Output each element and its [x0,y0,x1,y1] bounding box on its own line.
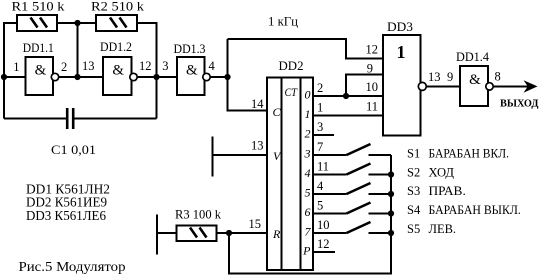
wire R1 left to input vertical [4,23,17,119]
svg-text:ХОД: ХОД [429,165,455,179]
svg-text:R3 100 k: R3 100 k [175,208,222,222]
svg-text:DD1.1: DD1.1 [23,41,54,55]
svg-text:2: 2 [305,127,311,141]
svg-text:12: 12 [366,43,379,57]
svg-text:&: & [186,63,198,79]
svg-text:DD2: DD2 [279,59,304,73]
svg-text:P: P [302,244,311,258]
op-amp DD1.3 (inverter) [177,57,210,95]
svg-text:12: 12 [139,59,152,73]
svg-text:3: 3 [162,59,168,73]
svg-text:S5: S5 [407,222,420,236]
wire junction up to DD3 pin9 [346,75,383,97]
svg-text:1: 1 [305,107,311,121]
svg-text:БАРАБАН ВЫКЛ.: БАРАБАН ВЫКЛ. [429,203,521,217]
wire junction down to gate input wire [77,23,79,77]
svg-text:&: & [469,72,481,88]
svg-text:15: 15 [249,217,262,231]
node DD1.3 output junction [224,74,230,80]
svg-text:5: 5 [305,186,311,200]
svg-text:4: 4 [209,59,216,73]
svg-text:3: 3 [304,147,311,161]
node DD1.2 out / R2-C1 junction [153,74,159,80]
counter DD2 [267,78,313,271]
node R3 junction [226,230,232,236]
svg-text:&: & [112,63,124,79]
switch S5 [313,222,394,236]
resistor R3 [177,226,217,242]
wire 1kHz top line [228,39,384,59]
svg-text:DD3: DD3 [387,20,413,34]
wire DD1.3 junction down to pin 14 [228,39,268,111]
svg-text:14: 14 [251,97,264,111]
svg-text:12: 12 [317,237,330,251]
wire output with arrow [493,85,531,87]
wire T-bar to R3 [157,232,177,234]
wire R1 right to R2 left [57,22,96,24]
svg-text:S4: S4 [407,203,421,217]
svg-text:S2: S2 [407,165,420,179]
svg-text:R1 510 k: R1 510 k [12,0,66,14]
wire V input to DD2 [213,154,268,156]
switch S3 [313,183,394,197]
svg-text:DD3 К561ЛЕ6: DD3 К561ЛЕ6 [26,208,106,223]
or-gate DD3 [383,35,426,136]
svg-text:S3: S3 [407,184,420,198]
svg-text:13: 13 [82,59,95,73]
svg-text:ЛЕВ.: ЛЕВ. [429,222,457,236]
svg-text:4: 4 [305,166,311,180]
svg-text:13: 13 [428,70,441,84]
svg-text:ВЫХОД: ВЫХОД [500,98,539,110]
svg-text:2: 2 [61,60,67,74]
svg-text:1: 1 [13,60,19,74]
switch S4 [313,203,394,217]
resistor R2 [96,15,137,31]
svg-text:C1 0,01: C1 0,01 [51,143,96,157]
svg-text:9: 9 [367,62,373,76]
svg-text:0: 0 [305,88,311,102]
wire R input T-bar [156,215,158,255]
wire DD3 out to DD1.4 [426,85,460,87]
svg-text:1: 1 [397,42,406,62]
wire R2 right down to DD1.3 input row [137,23,157,119]
wire DD2 out1 to DD3 pin11 [313,115,383,117]
wire DD1.1 out to DD1.2 in [58,76,103,78]
svg-text:DD1.4: DD1.4 [456,50,490,64]
svg-text:13: 13 [251,139,264,153]
wire feedback bottom left [4,118,66,120]
wire feedback bottom right [75,118,157,120]
switch S2 [313,164,394,178]
output arrowhead [524,80,538,92]
node input junction [1,74,7,80]
svg-text:7: 7 [317,140,323,154]
svg-text:DD1.2: DD1.2 [100,40,132,54]
node DD1.1 out / feedback junction [74,74,80,80]
wire DD2 out2 stub [313,134,334,136]
svg-text:C: C [273,105,282,119]
op-amp DD1.4 (inverter) [460,66,493,106]
wire DD2 out0 to DD3 pin10 [313,95,383,97]
svg-text:БАРАБАН ВКЛ.: БАРАБАН ВКЛ. [429,147,510,161]
wire DD1.2 out to DD1.3 in [137,76,178,78]
wire input row to DD1.1 [4,76,26,78]
svg-text:R: R [272,227,281,241]
svg-text:&: & [35,63,47,79]
wire DD2 outP stub [313,251,335,253]
svg-text:2: 2 [317,81,323,95]
svg-text:1: 1 [317,101,323,115]
wire DD1.3 out to junction [209,76,228,78]
wire junction down to bottom return [229,155,391,273]
svg-text:S1: S1 [407,147,420,161]
op-amp DD1.2 (inverter) [103,57,137,95]
svg-text:Рис.5 Модулятор: Рис.5 Модулятор [19,260,126,275]
wire V input T-bar [212,137,214,177]
svg-text:DD1.3: DD1.3 [174,42,206,56]
svg-text:6: 6 [305,205,311,219]
node R1-R2 junction [74,20,80,26]
svg-text:4: 4 [317,179,324,193]
switch S1 [313,144,391,155]
svg-text:7: 7 [305,225,312,239]
svg-text:5: 5 [317,199,323,213]
capacitor C1 [67,108,73,129]
svg-text:9: 9 [447,70,453,84]
svg-text:11: 11 [366,100,378,114]
svg-text:3: 3 [317,120,323,134]
node out0/pin9 junction [343,93,349,99]
svg-text:10: 10 [366,80,379,94]
op-amp DD1.1 (inverter) [26,57,59,95]
svg-text:R2 510 k: R2 510 k [91,0,145,14]
svg-text:11: 11 [317,160,329,174]
svg-text:10: 10 [317,218,330,232]
svg-text:CT: CT [285,85,299,99]
wire R3 to DD2 R input [217,232,268,234]
svg-text:1 кГц: 1 кГц [268,15,298,29]
resistor R1 [17,15,57,31]
svg-text:ПРАВ.: ПРАВ. [429,184,466,198]
svg-text:8: 8 [495,70,501,84]
